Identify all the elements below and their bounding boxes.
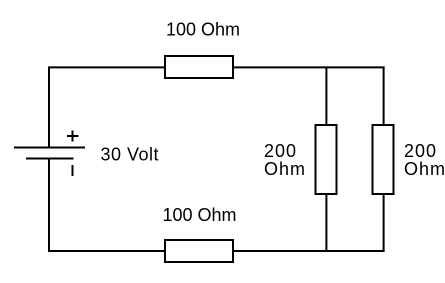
- wire bottom-right (bottom rail, R2 right lead to branches): [233, 250, 385, 252]
- svg-text:100 Ohm: 100 Ohm: [166, 20, 240, 40]
- resistor R4 (200 Ohm, right vertical): [373, 125, 394, 194]
- svg-text:Ohm: Ohm: [404, 159, 445, 179]
- resistor R2 (100 Ohm, bottom): [165, 240, 233, 262]
- svg-text:30 Volt: 30 Volt: [101, 145, 160, 165]
- label 200 Ohm (left): [264, 141, 306, 179]
- wire bottom of R4 to bottom rail: [383, 194, 385, 252]
- svg-text:200: 200: [264, 141, 297, 161]
- wire top-right (R1 right lead to right branch): [233, 66, 385, 68]
- battery V1 (30 Volt) positive plate: [14, 147, 85, 149]
- resistor R3 (200 Ohm, left vertical): [316, 125, 337, 194]
- wire right branch drop (top of R4 branch): [383, 66, 385, 125]
- battery plus sign: [67, 131, 79, 142]
- wire node A drop (top of R3 branch): [325, 66, 327, 125]
- label 200 Ohm (right): [404, 141, 445, 179]
- wire top-left (battery positive to R1 left lead): [49, 67, 165, 147]
- resistor R1 (100 Ohm, top): [165, 56, 233, 78]
- wire bottom of R3 to bottom rail: [325, 194, 327, 252]
- battery minus tick: [72, 165, 74, 176]
- battery V1 negative plate: [26, 158, 74, 160]
- svg-text:100 Ohm: 100 Ohm: [163, 205, 237, 225]
- svg-text:Ohm: Ohm: [264, 159, 306, 179]
- svg-text:200: 200: [404, 141, 437, 161]
- wire bottom-left (R2 left lead to battery negative): [49, 158, 165, 251]
